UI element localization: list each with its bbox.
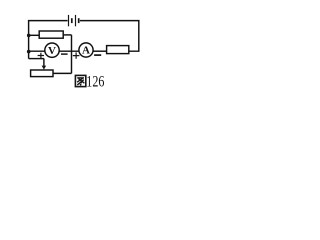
wire R1 right to vertical bus [63, 34, 71, 36]
voltmeter minus label [61, 53, 68, 55]
ammeter plus label [73, 52, 80, 58]
rheostat slider arrowhead [42, 66, 47, 70]
wire vertical bus x=71.5 from R1 level down to rheostat level [71, 35, 73, 74]
node junction 2 [27, 50, 31, 54]
node junction 1 [27, 34, 31, 38]
caption glyph "tu" (figure) outer box [75, 75, 85, 86]
voltmeter V circle [45, 43, 59, 57]
wire top-right from battery to right corner down to R2 [80, 21, 139, 52]
wire voltmeter branch: junction 2 to V [29, 50, 45, 52]
battery B: short plate 1 (-) [71, 18, 73, 23]
wire A to R2 [93, 50, 107, 52]
svg-text:126: 126 [86, 73, 104, 90]
ammeter minus label [94, 54, 101, 56]
wire R1 branch: junction 1 to R1 [29, 34, 40, 36]
rheostat R (bottom box) [31, 70, 53, 77]
resistor R1 (top box) [39, 31, 63, 38]
wire rheostat right to vertical bus [53, 72, 72, 74]
svg-text:A: A [82, 45, 90, 57]
caption glyph inner strokes [77, 77, 84, 79]
wire V to A through cross node [59, 50, 79, 52]
svg-text:V: V [48, 45, 56, 57]
resistor R2 (right box) [107, 46, 129, 54]
wire bottom feed to rheostat slider [29, 58, 44, 60]
voltmeter plus label [38, 53, 44, 59]
wire top-left from battery to left corner and left vertical down [29, 21, 68, 59]
battery B: long plate 1 (+) [68, 15, 70, 26]
battery B: long plate 2 (+) [75, 15, 77, 26]
ammeter A circle [79, 43, 93, 57]
battery B: short plate 2 (-) [78, 18, 80, 23]
rheostat slider arrow stem [43, 59, 45, 67]
